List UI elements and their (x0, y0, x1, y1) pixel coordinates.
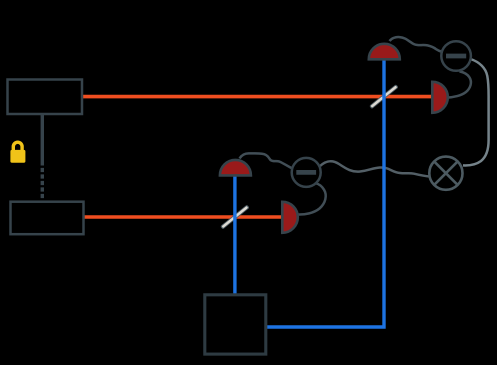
wire: detector D2 loop to subtractor S1 (297, 183, 326, 214)
detector D3 (upper homodyne, dome up) (369, 44, 400, 60)
wire: detector D4 loop to subtractor S2 (447, 71, 471, 97)
padlock (phase lock) (10, 142, 25, 162)
beam: laser L1 output (orange, upper) (83, 95, 432, 99)
subtractor S1 circle (292, 158, 321, 187)
subtractor S2 minus sign (446, 54, 466, 59)
beam: laser L2 output (orange, lower) (85, 215, 282, 219)
detector D1 (lower homodyne, dome up) (220, 160, 251, 176)
beamsplitter BS2 (lower) (220, 204, 250, 229)
multiplier M1 cross bar 2 (434, 162, 457, 185)
laser box L2 (11, 202, 84, 235)
local oscillator box L3 (205, 295, 266, 354)
wire: subtractor S2 output to multiplier M1 (463, 59, 489, 165)
laser box L1 (8, 80, 83, 115)
detector D4 (upper homodyne, dome right) (432, 82, 448, 113)
subtractor S1 minus sign (296, 170, 316, 175)
wire: detector D1 to subtractor S1 (lower homodyne) (240, 153, 293, 168)
multiplier M1 cross bar 1 (434, 162, 457, 185)
wire: detector D3 to subtractor S2 (upper homodyne) (390, 37, 443, 52)
multiplier M1 circle (429, 157, 462, 190)
beamsplitter BS1 (upper) (369, 84, 399, 109)
wire: subtractor S1 output to multiplier M1 (320, 161, 431, 176)
wire: phase-lock link solid segment (41, 114, 44, 166)
wire: phase-lock link dashed segment (41, 168, 44, 200)
wire: local oscillator to BS2 and detector D1 (blue vertical) (233, 175, 236, 295)
subtractor S2 circle (441, 41, 471, 71)
wire: local oscillator to BS1 and detector D3 (blue L-shaped) (267, 60, 385, 328)
detector D2 (lower homodyne, dome right) (282, 202, 298, 233)
